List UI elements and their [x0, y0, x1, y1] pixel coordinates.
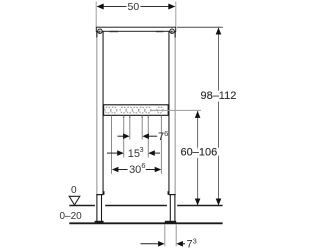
- svg-text:98–112: 98–112: [200, 90, 236, 102]
- svg-text:50: 50: [128, 1, 140, 13]
- svg-text:0: 0: [71, 185, 77, 196]
- svg-text:15: 15: [128, 148, 140, 160]
- svg-text:60–106: 60–106: [181, 147, 218, 159]
- svg-text:3: 3: [140, 145, 144, 154]
- svg-text:6: 6: [141, 161, 145, 170]
- svg-text:30: 30: [129, 164, 141, 176]
- svg-text:0–20: 0–20: [60, 211, 83, 222]
